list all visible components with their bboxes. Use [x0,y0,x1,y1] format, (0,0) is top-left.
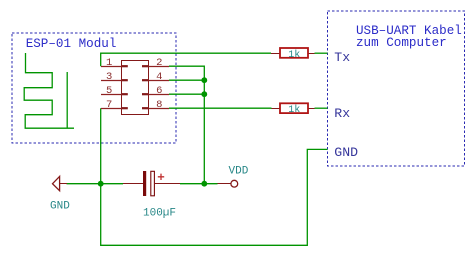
svg-text:100µF: 100µF [143,207,176,219]
svg-text:GND: GND [334,145,358,160]
svg-text:zum Computer: zum Computer [356,36,447,50]
svg-text:1: 1 [106,57,112,69]
svg-text:6: 6 [156,85,162,97]
svg-text:7: 7 [106,99,112,111]
svg-text:2: 2 [156,57,162,69]
svg-text:1k: 1k [288,49,300,61]
svg-text:ESP–01 Modul: ESP–01 Modul [26,37,117,51]
svg-text:5: 5 [106,85,112,97]
svg-text:VDD: VDD [229,165,249,177]
svg-text:GND: GND [50,200,70,212]
svg-text:8: 8 [156,99,162,111]
svg-text:4: 4 [156,71,162,83]
svg-text:1k: 1k [288,104,300,116]
svg-text:3: 3 [106,71,112,83]
svg-text:Rx: Rx [334,106,350,121]
svg-text:Tx: Tx [334,50,350,65]
